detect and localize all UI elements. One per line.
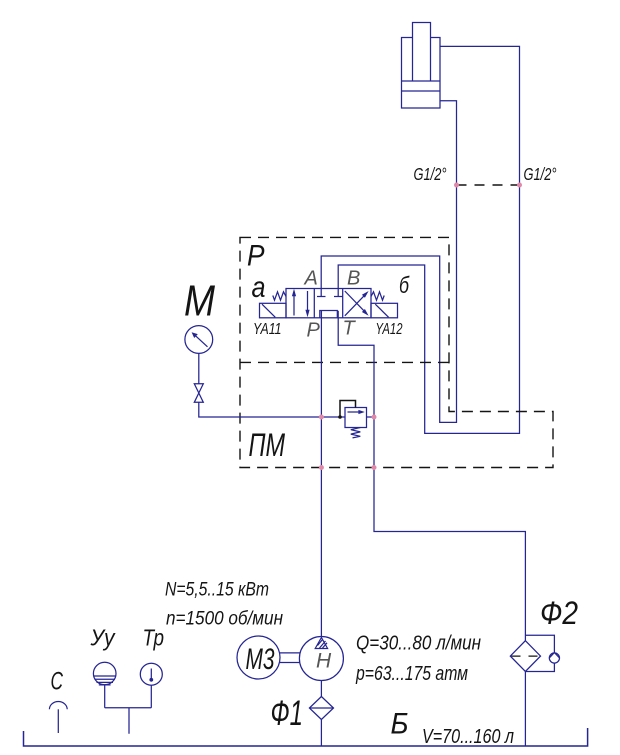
wire F2 bypass lower <box>525 663 554 671</box>
boundary divider between P and PM <box>240 361 449 363</box>
node P-line x gauge line <box>319 415 324 420</box>
G1/2 connection dashed line <box>457 184 520 186</box>
relief valve arrow <box>348 411 362 413</box>
filter F2 <box>510 641 540 672</box>
valve center blocked-port notch <box>320 311 338 318</box>
valve position b crossed arrow 1 <box>345 293 367 316</box>
relief valve pilot loop <box>340 401 356 418</box>
cylinder rod <box>413 23 431 82</box>
svg-text:G1/2°: G1/2° <box>524 164 557 184</box>
wire gauge line to relief valve <box>199 402 345 417</box>
svg-text:Тр: Тр <box>143 625 165 651</box>
wire pump to filter F1 <box>320 681 322 697</box>
electric motor M3 <box>237 636 280 679</box>
check valve ball <box>549 653 559 663</box>
svg-text:P: P <box>307 320 321 342</box>
svg-text:n=1500 об/мин: n=1500 об/мин <box>166 609 283 630</box>
breather C <box>49 702 67 710</box>
coupling motor-pump <box>280 653 300 663</box>
wire instrument manifold <box>105 708 152 734</box>
svg-text:p=63...175 атм: p=63...175 атм <box>355 663 468 685</box>
filter F1 <box>309 697 333 720</box>
wire filter F1 to tank <box>320 720 322 747</box>
wire gauge stem <box>198 353 200 383</box>
svg-text:Q=30...80 л/мин: Q=30...80 л/мин <box>356 633 481 655</box>
svg-text:Ф2: Ф2 <box>540 595 578 631</box>
node G1/2 left <box>454 183 459 188</box>
svg-text:б: б <box>399 272 410 298</box>
svg-text:T: T <box>343 318 357 340</box>
check valve seat <box>549 653 559 658</box>
wire F2 bypass upper <box>525 635 554 652</box>
svg-text:YA12: YA12 <box>376 321 403 338</box>
valve port B T-bar <box>334 296 343 298</box>
node G1/2 right <box>517 183 522 188</box>
svg-text:YA11: YA11 <box>253 321 282 338</box>
wire relief valve outlet <box>367 416 375 418</box>
svg-text:М: М <box>184 277 215 326</box>
shutoff valve (gauge isolator) <box>194 384 203 393</box>
svg-text:а: а <box>252 271 266 304</box>
svg-text:N=5,5..15 кВт: N=5,5..15 кВт <box>165 580 269 601</box>
pump H <box>299 637 343 681</box>
svg-text:A: A <box>304 268 318 290</box>
svg-text:ПМ: ПМ <box>249 427 286 463</box>
valve spring left <box>273 292 286 300</box>
svg-text:Ф1: Ф1 <box>271 694 304 733</box>
boundary P/PM outer dashed box <box>240 237 553 467</box>
valve R body <box>286 289 371 318</box>
level gauge Uu <box>93 662 116 685</box>
tank B outline <box>24 728 588 746</box>
wire Uu stem <box>104 685 106 708</box>
svg-text:G1/2°: G1/2° <box>414 164 447 184</box>
cylinder piston <box>402 81 441 91</box>
valve position b crossed arrow 2 <box>345 291 367 313</box>
node relief outlet x T-line <box>372 415 377 420</box>
svg-text:Б: Б <box>391 708 409 741</box>
svg-text:С: С <box>51 668 64 696</box>
relief valve KP body <box>345 408 367 428</box>
svg-text:Н: Н <box>316 650 332 673</box>
wire filter F2 to tank <box>524 672 526 747</box>
wire T-line: valve to filter F2 <box>338 311 525 641</box>
pump flow triangle <box>315 638 327 649</box>
thermometer Tr <box>140 663 162 685</box>
valve position a up-arrow <box>293 293 295 316</box>
valve position a down-arrow <box>307 291 309 313</box>
node pilot tap <box>338 415 342 419</box>
relief valve spring <box>351 428 361 438</box>
solenoid YA12 box <box>371 303 398 318</box>
wire A-line: valve port A to cylinder bottom port <box>321 101 456 423</box>
svg-text:Р: Р <box>247 240 265 273</box>
svg-text:Уу: Уу <box>90 625 116 651</box>
hydraulic cylinder barrel <box>402 38 441 109</box>
pressure gauge M <box>185 326 213 354</box>
valve spring right <box>371 292 384 300</box>
svg-text:B: B <box>347 268 360 290</box>
wire P-line: valve to pump <box>320 311 322 637</box>
node T-line x PM boundary <box>372 465 377 470</box>
wire Tr stem <box>150 685 152 708</box>
svg-text:V=70...160 л: V=70...160 л <box>422 726 514 748</box>
valve port A T-bar <box>317 296 326 298</box>
valve R section dividers <box>314 289 342 318</box>
solenoid YA11 box <box>260 303 287 318</box>
wire B-line: valve port B to cylinder top port <box>338 46 519 433</box>
node P-line x PM boundary <box>319 465 324 470</box>
svg-text:М3: М3 <box>246 643 275 676</box>
